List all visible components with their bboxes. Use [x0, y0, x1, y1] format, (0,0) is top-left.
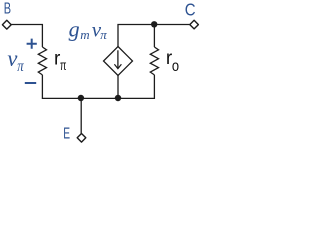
svg-text:C: C — [185, 0, 196, 19]
plus sign of v_pi — [27, 39, 37, 49]
wire from B terminal to r_pi top — [11, 25, 43, 48]
svg-text:g: g — [69, 16, 80, 41]
svg-text:m: m — [80, 27, 89, 42]
wire diamond bottom to bottom rail — [117, 76, 119, 99]
resistor R_o zigzag — [150, 47, 158, 75]
wire r_pi bottom, bottom rail, up to r_o bottom — [42, 75, 154, 99]
wire r_o top to top rail, top rail from diamond to C terminal — [118, 25, 190, 48]
junction dot at E tap — [78, 95, 84, 101]
svg-text:B: B — [4, 0, 11, 17]
junction dot at r_o top — [151, 21, 157, 27]
svg-text:π: π — [17, 58, 24, 75]
arrow inside source (points down) — [117, 50, 119, 68]
terminal E (open diamond) — [77, 134, 86, 143]
terminal B (open diamond) — [2, 20, 11, 29]
terminal C (open diamond) — [190, 20, 199, 29]
svg-text:o: o — [172, 58, 179, 75]
junction dot at diamond bottom — [115, 95, 121, 101]
svg-text:π: π — [60, 57, 67, 73]
svg-text:π: π — [100, 27, 107, 42]
minus sign of v_pi — [25, 82, 36, 84]
wire from bottom rail down to E terminal — [80, 98, 82, 133]
svg-text:E: E — [63, 125, 70, 142]
dependent current source g_m*v_pi (diamond) — [104, 47, 133, 76]
resistor R_pi zigzag — [38, 47, 46, 75]
